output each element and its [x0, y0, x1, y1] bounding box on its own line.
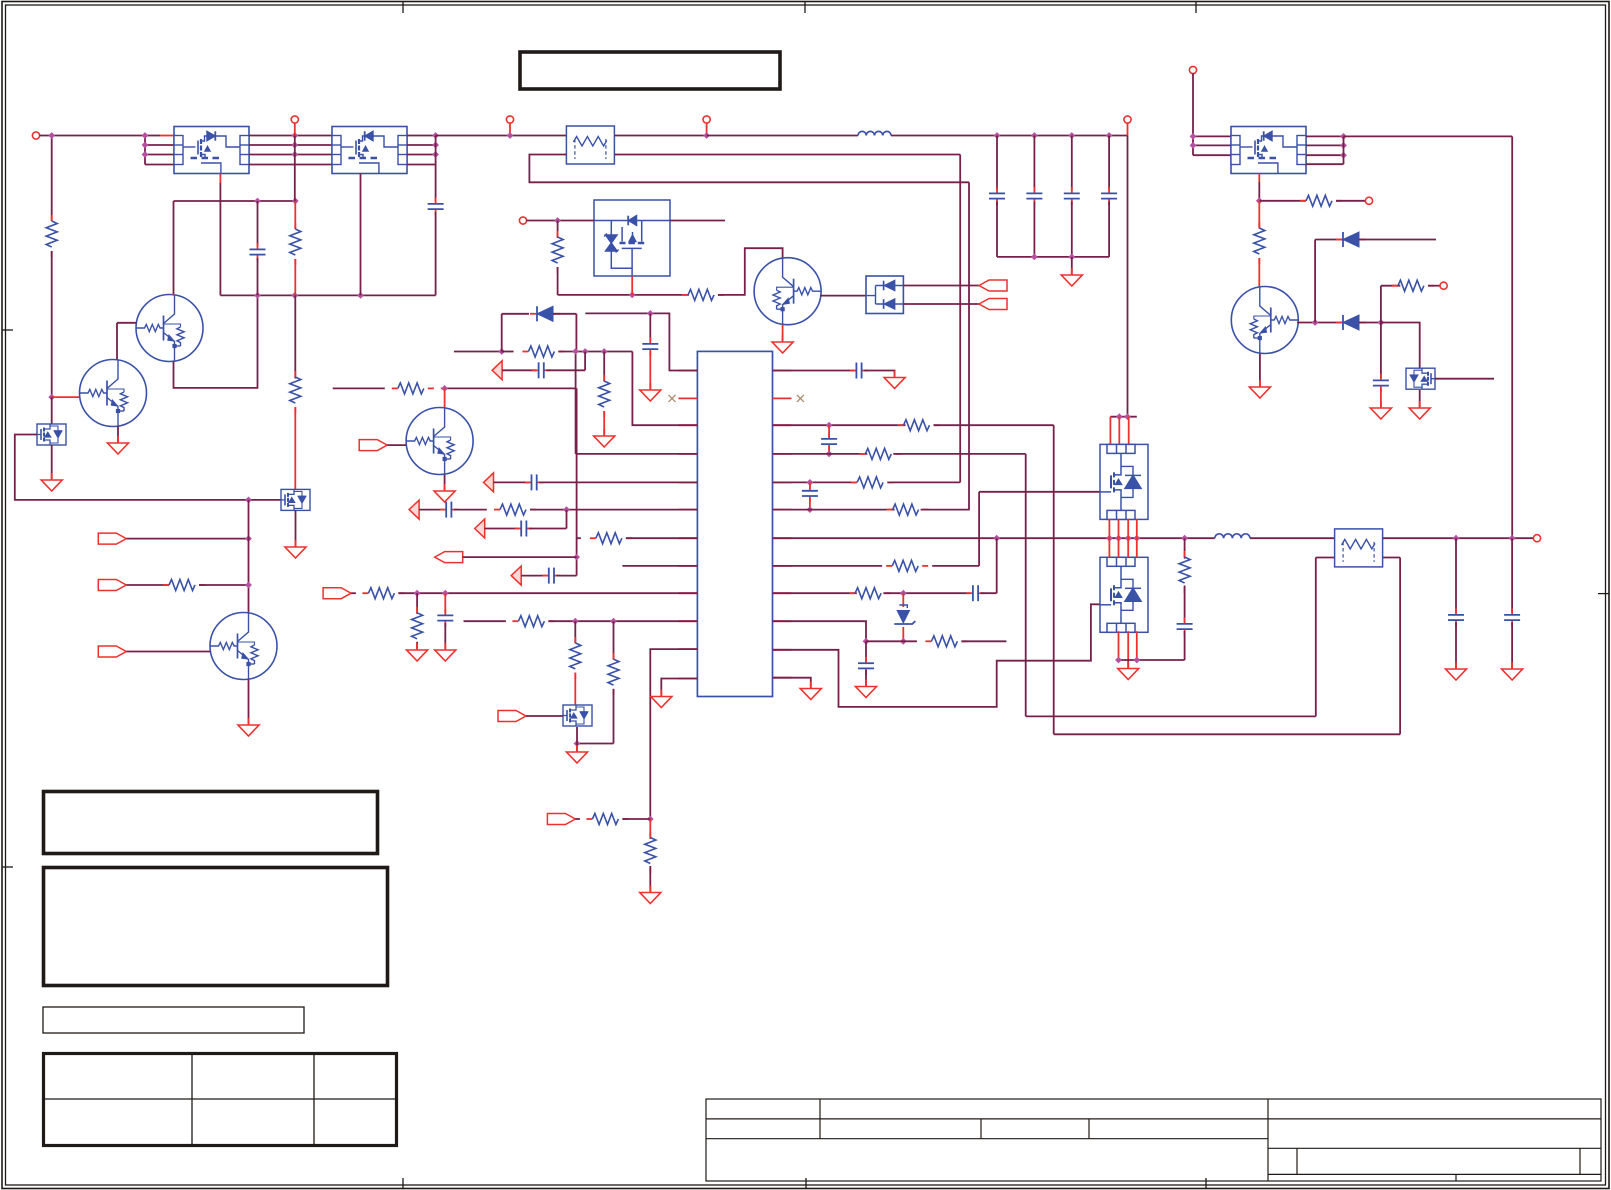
capacitor C14 [1373, 374, 1389, 392]
wire [1108, 202, 1110, 257]
wire [248, 680, 250, 725]
transistor Q19 [1231, 287, 1298, 354]
junction [498, 348, 505, 355]
wire [1258, 174, 1260, 183]
wire [1026, 715, 1316, 717]
ground [640, 886, 661, 904]
resistor R46 [849, 588, 891, 599]
ground [407, 643, 428, 661]
wire [51, 445, 53, 479]
wire [631, 276, 633, 295]
wire [614, 154, 960, 156]
resistor R36 [512, 616, 554, 627]
wire [553, 313, 576, 315]
junction [1115, 535, 1122, 542]
junction [647, 816, 654, 823]
connector OUT1 [979, 280, 1007, 291]
transistor Q24 [406, 408, 473, 475]
connector FB1 [492, 361, 502, 380]
junction [254, 198, 261, 205]
connector OUT2 [979, 299, 1007, 310]
capacitor C25 [440, 502, 458, 518]
notes box 2 [44, 868, 388, 986]
ic U10 [697, 351, 772, 696]
wire [782, 325, 784, 341]
wire [883, 592, 970, 594]
terminal P9 [1440, 282, 1447, 289]
capacitor C11 [1026, 187, 1042, 205]
wire [1259, 354, 1261, 386]
border tick bottom 1 [402, 1178, 404, 1189]
terminal P7 [1189, 66, 1196, 73]
junction [563, 506, 570, 513]
connector FB5 [511, 566, 521, 585]
pin [773, 397, 792, 399]
wire [979, 491, 1100, 493]
junction [900, 638, 907, 645]
junction [826, 451, 833, 458]
wire [996, 538, 998, 593]
pin [773, 370, 792, 372]
wire [294, 123, 296, 136]
ground [1446, 662, 1467, 680]
wire [576, 453, 698, 455]
wire [865, 670, 867, 685]
wire [1419, 390, 1421, 407]
transistor Q16 [210, 613, 277, 680]
wire [1315, 239, 1343, 241]
ground [238, 718, 259, 736]
wire [435, 136, 437, 165]
wire [351, 592, 356, 594]
terminal P8 [1365, 197, 1372, 204]
pin [773, 677, 792, 679]
wire [1192, 73, 1194, 155]
pin [678, 537, 697, 539]
wire [416, 593, 418, 614]
title block [706, 1099, 1601, 1181]
junction [1340, 133, 1347, 140]
capacitor C10 [989, 187, 1005, 205]
capacitor C36 [1504, 609, 1520, 627]
wire [661, 679, 697, 696]
ground [41, 473, 62, 491]
capacitor C12 [1064, 187, 1080, 205]
capacitor C22 [642, 338, 658, 356]
junction [432, 132, 439, 139]
wire [1184, 631, 1186, 660]
wire [407, 144, 436, 146]
diode D13 [1336, 232, 1366, 247]
border tick bottom 3 [1205, 1178, 1207, 1189]
wire [407, 135, 436, 137]
wire [996, 202, 998, 257]
wire [558, 294, 689, 296]
junction [582, 348, 589, 355]
pin [678, 678, 697, 680]
wire [670, 220, 725, 222]
wire [1109, 417, 1111, 445]
junction [807, 506, 814, 513]
wire [257, 258, 259, 295]
wire [574, 621, 576, 643]
junction [574, 740, 581, 747]
wire [577, 537, 581, 539]
connector CTL2 [98, 580, 126, 591]
border tick right [1598, 593, 1609, 595]
terminal P6 [519, 217, 526, 224]
terminal P1 [32, 132, 39, 139]
resistor R39 [586, 814, 628, 825]
pin [678, 453, 697, 455]
wire [632, 352, 697, 426]
wire [828, 425, 830, 437]
wire [249, 164, 332, 166]
wire [1306, 144, 1344, 146]
wire [1025, 454, 1027, 717]
capacitor C32 [967, 585, 985, 601]
wire [360, 174, 362, 296]
resistor R29 [392, 383, 434, 394]
wire [502, 351, 514, 353]
wire [1359, 239, 1436, 241]
capacitor C30 [821, 433, 837, 451]
junction [573, 554, 580, 561]
connector FB2 [484, 473, 494, 492]
wire [903, 285, 979, 287]
capacitor C35 [1448, 609, 1464, 627]
wire [529, 528, 567, 530]
notes box 3 [43, 1007, 304, 1033]
mosfet Q18 package [1231, 127, 1306, 174]
transformer T11 [1335, 529, 1383, 567]
junction [1031, 254, 1038, 261]
junction [572, 348, 579, 355]
wire [416, 642, 418, 649]
wire [1127, 136, 1129, 417]
wire [548, 620, 697, 622]
capacitor C34 [1177, 618, 1193, 636]
wire [40, 135, 146, 137]
wire [454, 351, 502, 353]
wire [454, 509, 487, 511]
resistor R20 [46, 215, 57, 257]
wire [577, 743, 614, 745]
ground [856, 680, 877, 698]
wire [576, 388, 578, 575]
junction [1106, 132, 1113, 139]
wire [1315, 558, 1317, 717]
pin [678, 370, 697, 372]
junction [1115, 657, 1122, 664]
wire [1128, 417, 1130, 445]
connector CTL1 [359, 440, 387, 451]
wire [603, 411, 605, 435]
wire [576, 727, 578, 744]
junction [572, 618, 579, 625]
wire [51, 136, 53, 222]
connector ISNS [547, 814, 575, 825]
ground [1409, 401, 1430, 419]
wire [485, 528, 519, 530]
wire [1136, 538, 1138, 557]
wire [173, 294, 175, 296]
wire [773, 509, 895, 511]
wire [891, 135, 1128, 137]
wire [1344, 135, 1513, 137]
wire [116, 323, 118, 360]
junction [291, 132, 298, 139]
wire [1511, 623, 1513, 669]
wire [444, 388, 446, 407]
wire [557, 221, 559, 239]
wire [145, 154, 174, 156]
junction [142, 132, 149, 139]
junction [291, 292, 298, 299]
wire [145, 135, 160, 137]
wire [649, 313, 651, 341]
wire [614, 135, 706, 137]
wire [996, 136, 998, 191]
junction [629, 292, 636, 299]
pin [678, 397, 697, 399]
wire [574, 673, 576, 705]
wire [444, 475, 446, 490]
resistor R26 [1300, 195, 1342, 206]
junction [441, 385, 448, 392]
terminal P2 [291, 116, 298, 123]
pin [773, 509, 792, 511]
wire [1136, 519, 1138, 538]
wire [1381, 285, 1400, 287]
wire [1127, 519, 1129, 538]
wire [1455, 623, 1457, 669]
wire [1127, 123, 1129, 136]
resistor R22 [290, 371, 301, 413]
junction [807, 479, 814, 486]
wire [1343, 136, 1345, 164]
junction [1453, 535, 1460, 542]
junction [48, 132, 55, 139]
resistor R33 [590, 533, 632, 544]
wire [530, 509, 697, 511]
pin [773, 481, 792, 483]
wire [1336, 200, 1366, 202]
resistor R25 [682, 289, 724, 300]
wire [575, 351, 577, 454]
junction [245, 497, 252, 504]
junction [414, 590, 421, 597]
wire [866, 640, 917, 642]
wire [1118, 538, 1120, 557]
wire [932, 565, 979, 567]
resistor R48 [1179, 551, 1190, 593]
connector DRV [498, 711, 526, 722]
wire [436, 135, 567, 137]
capacitor C24 [525, 474, 543, 490]
junction [1340, 142, 1347, 149]
wire [407, 154, 436, 156]
junction [48, 394, 55, 401]
wire [444, 623, 446, 649]
transistor Q12 [136, 295, 203, 362]
wire [1380, 389, 1382, 408]
wire [1399, 558, 1401, 735]
wire [706, 123, 708, 136]
ground [1061, 268, 1082, 286]
wire [220, 294, 435, 296]
wire [509, 123, 511, 136]
resistor R45 [886, 560, 928, 571]
junction [1125, 535, 1132, 542]
junction [1133, 535, 1140, 542]
resistor R28 [1392, 280, 1434, 291]
border tick bottom 2 [805, 1178, 807, 1189]
terminal P4 [703, 116, 710, 123]
pin [678, 424, 697, 426]
wire [1136, 631, 1138, 660]
wire [1435, 378, 1494, 380]
pin [678, 481, 697, 483]
ground [594, 429, 615, 447]
wire [773, 565, 883, 567]
mosfet Q11 package [332, 127, 407, 174]
junction [245, 582, 252, 589]
junction [1190, 142, 1197, 149]
junction [1181, 535, 1188, 542]
wire [650, 649, 697, 819]
junction [1031, 132, 1038, 139]
junction [1509, 535, 1516, 542]
wire [145, 144, 174, 146]
revision table [44, 1054, 397, 1146]
wire [249, 154, 332, 156]
connector FB4 [475, 519, 485, 538]
wire [160, 135, 174, 137]
wire [257, 201, 259, 246]
wire [557, 575, 577, 577]
wire [526, 715, 563, 717]
wire [773, 481, 857, 483]
wire [52, 396, 80, 398]
ground [884, 371, 905, 389]
wire [558, 351, 632, 353]
wire [584, 352, 586, 371]
wire [502, 313, 529, 315]
transformer T10 [566, 126, 614, 164]
wire [566, 510, 568, 529]
junction [601, 348, 608, 355]
wire [521, 575, 546, 577]
junction [610, 618, 617, 625]
wire [1118, 417, 1120, 445]
pin [678, 620, 697, 622]
capacitor C21 [428, 198, 444, 216]
wire [1053, 425, 1055, 734]
wire [144, 136, 146, 165]
ground [434, 484, 455, 502]
wire [575, 314, 577, 352]
wire [1259, 200, 1306, 202]
diode D10 [530, 306, 560, 321]
resistor R47 [925, 636, 967, 647]
no-connect left [669, 395, 676, 402]
wire [1184, 586, 1186, 623]
capacitor C20 [250, 243, 266, 261]
wire [902, 593, 904, 607]
junction [994, 132, 1001, 139]
pin [773, 620, 792, 622]
transistor Q17 [754, 258, 821, 325]
resistor R42 [859, 448, 901, 459]
pin [678, 648, 697, 650]
wire [773, 678, 811, 688]
junction [1378, 319, 1385, 326]
wire [718, 248, 783, 295]
wire [117, 322, 136, 324]
wire [934, 424, 1054, 426]
wire [333, 387, 385, 389]
terminal P10 [1533, 535, 1540, 542]
junction [432, 142, 439, 149]
capacitor C28 [437, 609, 453, 627]
connector VIN_SNS [323, 588, 351, 599]
wire [1258, 258, 1260, 287]
wire [1359, 322, 1381, 324]
resistor R40 [645, 832, 656, 874]
junction [1190, 133, 1197, 140]
wire [494, 481, 529, 483]
wire [1118, 519, 1120, 538]
wire [1071, 136, 1073, 191]
junction [1106, 535, 1113, 542]
wire [294, 295, 296, 378]
wire [219, 174, 221, 184]
wire [903, 303, 979, 305]
junction [993, 535, 1000, 542]
pin [773, 453, 792, 455]
wire [773, 621, 867, 641]
capacitor C13 [1101, 187, 1117, 205]
diode D14 [1336, 315, 1366, 330]
resistor R44 [887, 504, 929, 515]
wire [1193, 135, 1231, 137]
wire [773, 604, 1101, 707]
wire [173, 201, 175, 294]
wire [248, 500, 250, 613]
junction [863, 638, 870, 645]
capacitor C29 [850, 363, 868, 379]
wire [127, 651, 211, 653]
wire [613, 689, 615, 744]
wire [649, 819, 651, 839]
junction [703, 132, 710, 139]
wire [1258, 182, 1260, 201]
notes box 1 [44, 792, 378, 854]
wire [1119, 659, 1185, 661]
ground [640, 383, 661, 401]
wire [603, 352, 605, 382]
connector CTL3 [98, 646, 126, 657]
wire [557, 267, 559, 295]
wire [1110, 416, 1136, 418]
resistor R35 [412, 607, 423, 649]
wire [441, 387, 445, 389]
ground [108, 436, 129, 454]
capacitor C26 [515, 521, 533, 537]
wire [295, 510, 297, 546]
capacitor C33 [858, 657, 874, 675]
